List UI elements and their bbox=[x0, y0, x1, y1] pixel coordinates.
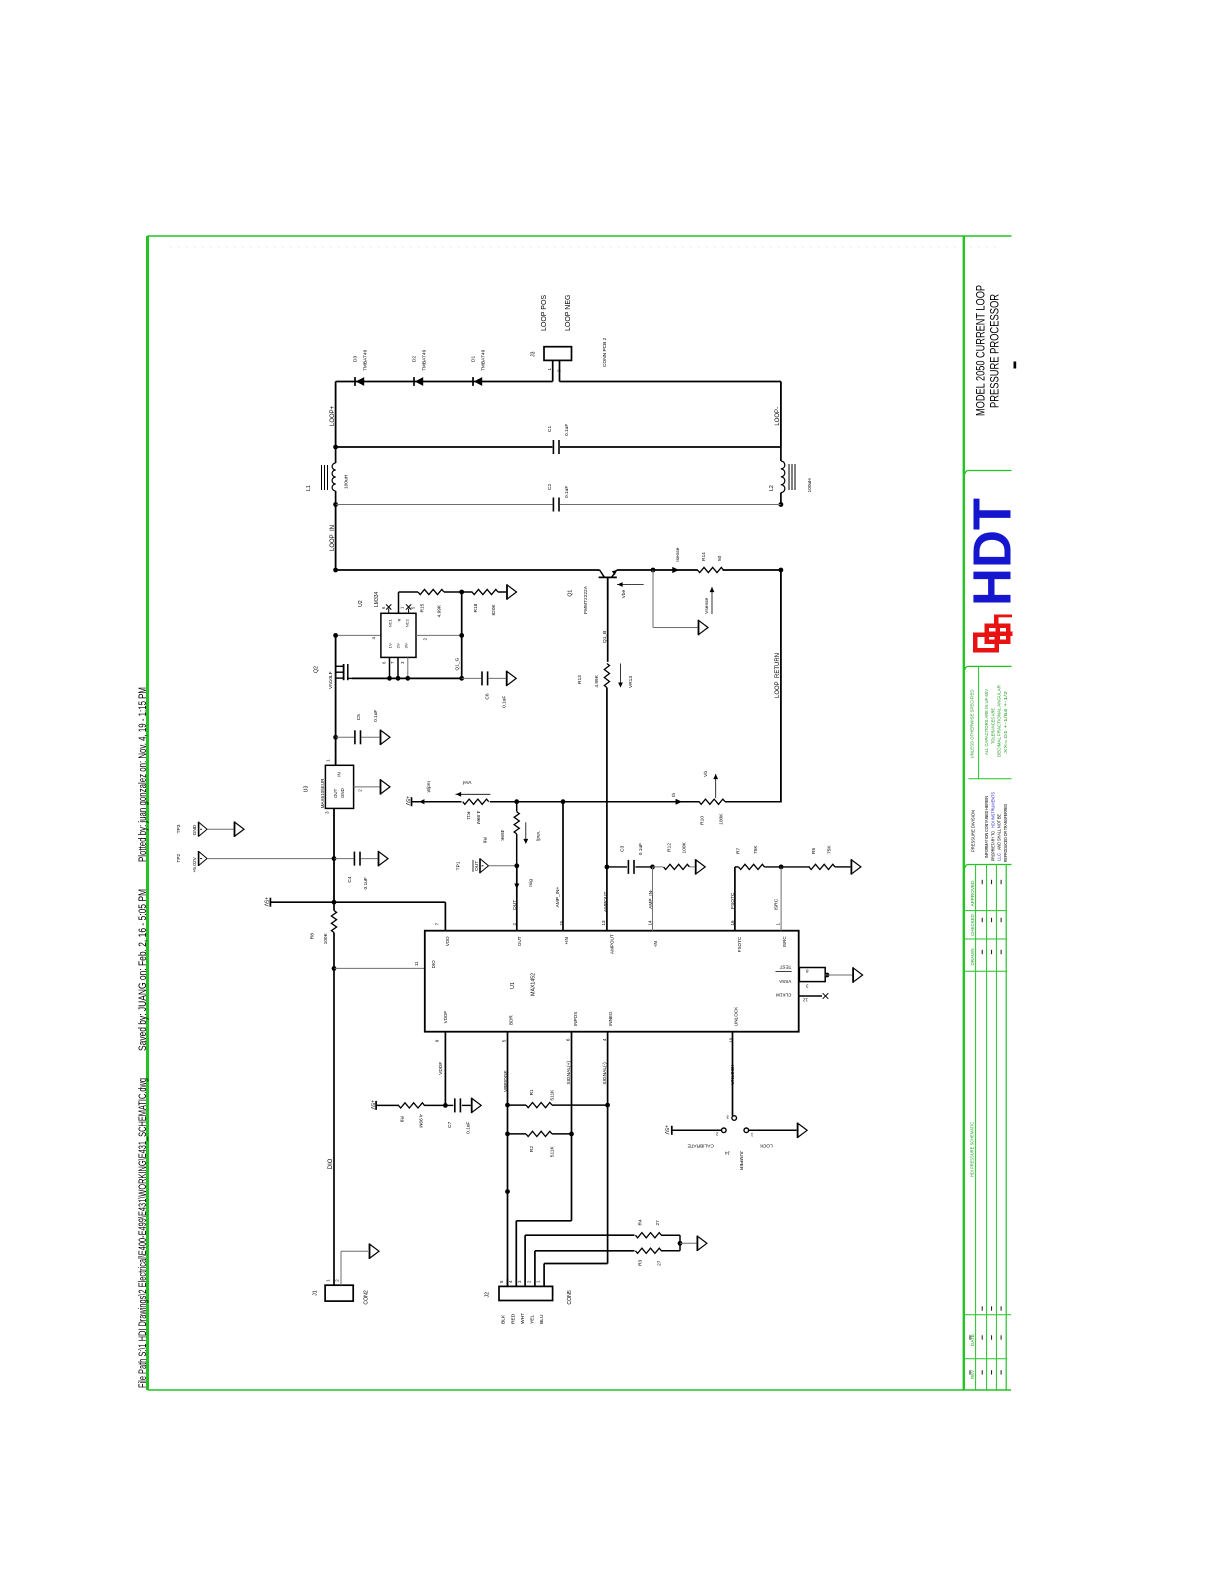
svg-text:MAX1452: MAX1452 bbox=[531, 973, 537, 996]
resistor R14 bbox=[653, 567, 724, 572]
label Q1 bbox=[568, 590, 574, 597]
svg-text:U1: U1 bbox=[510, 982, 516, 989]
pin 6 U1 bbox=[566, 1038, 571, 1041]
label BLU bbox=[539, 1314, 545, 1324]
logo text HDT bbox=[963, 498, 1023, 606]
svg-text:+5V: +5V bbox=[663, 1125, 669, 1135]
wire TP1 to OUT junction bbox=[489, 865, 517, 867]
pin 11 U1 bbox=[414, 961, 419, 966]
svg-text:J1: J1 bbox=[312, 1290, 318, 1296]
svg-text:R11: R11 bbox=[465, 812, 471, 821]
pin 1 J1 bbox=[326, 1278, 335, 1285]
annotation Iadjst bbox=[419, 781, 432, 804]
U1 pin name UNLOCK bbox=[734, 1006, 739, 1026]
wire AMP_IN- stub bbox=[652, 867, 654, 931]
label U2 bbox=[358, 600, 364, 607]
svg-text:AMPOUT: AMPOUT bbox=[610, 934, 615, 954]
svg-text:0.1uF: 0.1uF bbox=[363, 877, 369, 889]
label C2 bbox=[547, 484, 570, 498]
value U2 LM334 bbox=[374, 591, 380, 607]
value U1 MAX1452 bbox=[531, 973, 537, 996]
label U3 bbox=[304, 786, 310, 793]
value L1 100uH bbox=[344, 474, 350, 489]
ground R3 R4 bbox=[697, 1236, 707, 1252]
capacitor C2 bbox=[553, 498, 559, 512]
svg-text:CLK1M: CLK1M bbox=[776, 993, 791, 998]
svg-text:UNLOCK: UNLOCK bbox=[734, 1006, 739, 1026]
wire Q2 gate net vertical bbox=[459, 592, 464, 681]
svg-text:U2: U2 bbox=[358, 600, 364, 607]
net flag +5V j4 bbox=[663, 1125, 672, 1135]
label SIGNAL(-) bbox=[602, 1062, 608, 1085]
label SIGNAL(+) bbox=[566, 1061, 572, 1085]
label LOOP+ bbox=[330, 405, 336, 426]
svg-text:27: 27 bbox=[655, 1220, 661, 1226]
U1 pin name VDD bbox=[445, 936, 450, 946]
svg-text:PRESSURE DIVISION: PRESSURE DIVISION bbox=[971, 810, 976, 852]
U1 pin name AMPOUT bbox=[610, 934, 615, 954]
annotation Vsense bbox=[704, 587, 714, 614]
annotation Isense bbox=[672, 547, 681, 573]
inductor L1 bbox=[322, 447, 336, 505]
svg-text:100K: 100K bbox=[323, 932, 329, 944]
wire R3 R4 common bbox=[678, 1235, 697, 1251]
wire Q1 base down bbox=[607, 600, 609, 662]
node R11 R6 junction bbox=[514, 799, 519, 804]
node VBRIDGE R1 junction bbox=[505, 1103, 510, 1108]
svg-text:CONN PCB 2: CONN PCB 2 bbox=[602, 337, 608, 367]
wire RED signal+ bbox=[516, 1134, 571, 1221]
svg-text:LOOP-: LOOP- bbox=[775, 407, 781, 426]
svg-text:LOOP_RETURN: LOOP_RETURN bbox=[775, 653, 781, 698]
svg-text:75K: 75K bbox=[827, 845, 833, 854]
svg-text:LOOP NEG: LOOP NEG bbox=[565, 295, 572, 331]
label GND bbox=[192, 824, 198, 835]
svg-text:100uH: 100uH bbox=[807, 478, 813, 493]
svg-text:AND SHALL NOT BE: AND SHALL NOT BE bbox=[997, 814, 1002, 850]
svg-text:R15: R15 bbox=[419, 603, 425, 612]
label LOOP NEG bbox=[565, 295, 572, 331]
wire DIO row bbox=[334, 967, 425, 969]
U1 pin name BDR bbox=[508, 1015, 513, 1025]
node R15 R18 junction bbox=[459, 590, 464, 595]
revision table grid bbox=[964, 865, 1011, 1391]
node VBRIDGE lower junction bbox=[505, 1189, 510, 1194]
pin 1 U1 bbox=[775, 923, 780, 926]
svg-text:R8: R8 bbox=[309, 933, 315, 939]
svg-text:100uH: 100uH bbox=[344, 474, 350, 489]
svg-text:JUMPER: JUMPER bbox=[738, 1151, 744, 1171]
svg-text:11: 11 bbox=[414, 961, 419, 966]
standards cell text bbox=[970, 685, 1008, 759]
svg-text:MODEL 2050 CURRENT LOOP: MODEL 2050 CURRENT LOOP bbox=[976, 285, 988, 416]
svg-text:Isense: Isense bbox=[675, 547, 681, 561]
value C6 0.1uF bbox=[502, 696, 508, 708]
resistor R6 bbox=[514, 802, 519, 866]
svg-text:J4: J4 bbox=[725, 1149, 730, 1155]
wire collector row bbox=[336, 569, 600, 571]
svg-text:Q1_G: Q1_G bbox=[455, 657, 461, 670]
value R4 27 bbox=[655, 1220, 661, 1226]
pin 4 J2 bbox=[508, 1221, 516, 1287]
pin 9 U1 bbox=[435, 1039, 440, 1042]
svg-text:D1: D1 bbox=[471, 356, 477, 362]
node AMP_IN- junction bbox=[650, 865, 655, 870]
resistor R2 bbox=[508, 1131, 572, 1136]
value R3 27 bbox=[657, 1260, 663, 1266]
node ISRC junction bbox=[779, 865, 784, 870]
wire R14 to LOOP_RETURN bbox=[723, 568, 784, 573]
node L2 out junction bbox=[779, 502, 784, 507]
svg-text:INPOS: INPOS bbox=[573, 1012, 578, 1026]
svg-text:BLK: BLK bbox=[501, 1314, 507, 1324]
label VBRIDGE net bbox=[503, 1070, 509, 1092]
node DIO junction bbox=[332, 966, 337, 971]
svg-text:DIO: DIO bbox=[328, 1158, 334, 1169]
resistor R1 bbox=[508, 1103, 608, 1108]
svg-text:C3: C3 bbox=[620, 845, 626, 851]
wire Ib row bbox=[517, 799, 700, 804]
svg-text:9: 9 bbox=[435, 1039, 440, 1042]
svg-text:APPROVED: APPROVED bbox=[970, 881, 975, 907]
svg-text:IN: IN bbox=[337, 772, 342, 776]
svg-text:C4: C4 bbox=[347, 876, 353, 882]
resistor R5 bbox=[781, 864, 850, 869]
label R6 bbox=[482, 837, 488, 843]
svg-text:NC2: NC2 bbox=[405, 618, 410, 627]
svg-text:D2: D2 bbox=[412, 356, 418, 362]
file path stamp bbox=[137, 1078, 149, 1388]
wire AMP_IN+ vertical bbox=[562, 802, 564, 931]
ground TP3 bbox=[235, 821, 245, 837]
sheet border frame bbox=[148, 236, 1012, 1390]
svg-text:PROPRIETARY TO: PROPRIETARY TO bbox=[990, 830, 995, 861]
label Q2 bbox=[314, 666, 320, 673]
node L1 out junction bbox=[333, 502, 338, 507]
pin 1 U3 bbox=[326, 759, 331, 762]
svg-text:LM334: LM334 bbox=[374, 591, 380, 607]
svg-text:Vb: Vb bbox=[703, 771, 709, 777]
wire WHT to R4 bbox=[525, 1234, 634, 1236]
label D1 bbox=[471, 349, 487, 371]
svg-text:C6: C6 bbox=[485, 693, 491, 699]
label WHT bbox=[520, 1313, 526, 1324]
svg-text:HDI PRESSURE SCHEMATIC: HDI PRESSURE SCHEMATIC bbox=[970, 1121, 975, 1177]
annotation Vbe bbox=[617, 582, 644, 598]
value Q1 FMMT2222A bbox=[583, 585, 589, 614]
label CONN PCB 2 bbox=[602, 337, 608, 367]
svg-text:-IN: -IN bbox=[653, 941, 658, 947]
U2 internal text bbox=[388, 618, 410, 648]
svg-text:+IN: +IN bbox=[564, 937, 569, 944]
transistor Q2 VN10LF mosfet bbox=[336, 635, 352, 680]
pin 3 U3 out bbox=[325, 808, 335, 858]
svg-text:+5V: +5V bbox=[263, 897, 269, 907]
node LOOP_IN junction bbox=[333, 568, 338, 573]
test point TP3 bbox=[199, 822, 208, 837]
label R9 bbox=[399, 1116, 405, 1122]
U1 pin name DIO bbox=[431, 960, 436, 969]
svg-text:0.1uF: 0.1uF bbox=[465, 1122, 471, 1134]
svg-text:LLC: LLC bbox=[997, 853, 1002, 861]
label C1 bbox=[547, 424, 570, 436]
pin 5 U1 bbox=[501, 1039, 506, 1042]
wire to U3 bbox=[335, 737, 337, 765]
svg-text:VDDF: VDDF bbox=[438, 1062, 444, 1075]
svg-text:C7: C7 bbox=[447, 1121, 453, 1127]
pin 4 U1 bbox=[602, 1038, 607, 1041]
capacitor C3 bbox=[607, 860, 653, 874]
label R4 bbox=[637, 1219, 643, 1225]
capacitor C1 bbox=[553, 440, 559, 454]
value C5 0.1uF bbox=[373, 710, 379, 722]
svg-text:R4: R4 bbox=[637, 1219, 643, 1225]
svg-text:AMPOUT: AMPOUT bbox=[603, 892, 609, 913]
svg-text:14: 14 bbox=[647, 920, 652, 926]
capacitor C6 bbox=[462, 671, 506, 685]
wire LOOP_RETURN vertical bbox=[780, 570, 782, 803]
pin 2 U3 gnd bbox=[354, 787, 380, 792]
wire VDD stub bbox=[444, 902, 446, 931]
label R5 bbox=[811, 848, 817, 854]
svg-text:ISRC: ISRC bbox=[782, 936, 787, 948]
svg-text:R3: R3 bbox=[637, 1259, 643, 1265]
svg-text:VDDF: VDDF bbox=[443, 1011, 448, 1024]
value U3 MAX6105EUR bbox=[320, 778, 325, 809]
ground J1 pin2 bbox=[370, 1243, 380, 1259]
svg-text:Q1_B: Q1_B bbox=[602, 631, 608, 643]
wire BLU signal- bbox=[544, 1263, 608, 1265]
U1 pin name FSOTC bbox=[737, 936, 742, 952]
svg-text:4.99M: 4.99M bbox=[475, 811, 481, 824]
svg-text:5: 5 bbox=[501, 1039, 506, 1042]
label YEL bbox=[529, 1315, 535, 1324]
node C4 junction bbox=[332, 856, 337, 861]
svg-text:15: 15 bbox=[559, 920, 564, 926]
svg-text:PRESSURE PROCESSOR: PRESSURE PROCESSOR bbox=[990, 294, 1002, 408]
svg-text:+5.02V: +5.02V bbox=[192, 856, 198, 872]
label CALIBRATE bbox=[687, 1142, 713, 1148]
node SIGNAL+ junction bbox=[569, 1132, 574, 1137]
label R10 bbox=[700, 816, 706, 825]
svg-text:C2: C2 bbox=[547, 484, 553, 490]
svg-text:OUT: OUT bbox=[333, 788, 338, 798]
wire base net down to AMPOUT bbox=[606, 688, 608, 867]
node OUT junction bbox=[514, 863, 519, 868]
svg-text:6: 6 bbox=[566, 1038, 571, 1041]
svg-text:R1: R1 bbox=[529, 1089, 535, 1095]
label J1 bbox=[312, 1290, 318, 1296]
svg-text:REV: REV bbox=[970, 1370, 975, 1379]
ground R18 bbox=[507, 584, 517, 600]
ground R12 bbox=[696, 859, 706, 875]
label C7 bbox=[447, 1121, 453, 1127]
plot artifact row bbox=[170, 246, 1000, 248]
annotation Vadj bbox=[523, 822, 541, 844]
svg-text:J3: J3 bbox=[531, 351, 537, 357]
svg-text:File Path S:\1 HDI Drawings\2: File Path S:\1 HDI Drawings\2 Electrical… bbox=[137, 1078, 149, 1388]
label LOOP_IN bbox=[330, 525, 336, 551]
label C5 bbox=[356, 714, 362, 720]
wire OUT stub bbox=[516, 866, 518, 931]
svg-text:C1: C1 bbox=[547, 426, 553, 432]
value R12 100K bbox=[682, 841, 688, 853]
wire +5V row bbox=[270, 900, 445, 905]
node SIGNAL- junction bbox=[605, 1103, 610, 1108]
value R18 820K bbox=[491, 603, 497, 615]
svg-text:NC1: NC1 bbox=[388, 618, 393, 627]
pin 6 U2 bottom bbox=[382, 657, 392, 680]
svg-text:FSOTC: FSOTC bbox=[730, 892, 736, 909]
wire LOOP NEG to right rail bbox=[560, 382, 781, 448]
pin 14 U1 bbox=[647, 920, 652, 926]
label UNLOCK net bbox=[730, 1064, 736, 1085]
label OUT tp bbox=[473, 860, 480, 872]
pin 15 U1 bbox=[559, 920, 564, 926]
svg-text:VBRIDGE: VBRIDGE bbox=[503, 1070, 509, 1092]
svg-text:0.1uF: 0.1uF bbox=[373, 710, 379, 722]
value L2 100uH bbox=[807, 478, 813, 493]
svg-text:13: 13 bbox=[601, 920, 606, 926]
svg-text:CHECKED: CHECKED bbox=[970, 914, 975, 936]
svg-text:LOOP POS: LOOP POS bbox=[541, 295, 548, 331]
svg-text:OUT: OUT bbox=[474, 861, 480, 871]
U1 pin name +IN bbox=[564, 937, 569, 944]
label Q1_B bbox=[602, 631, 608, 643]
title cell divider bbox=[965, 471, 1011, 474]
svg-text:Q1: Q1 bbox=[568, 590, 574, 597]
svg-text:R13: R13 bbox=[577, 675, 583, 684]
resistor R15 bbox=[399, 589, 462, 594]
wire U2 pin4 row bbox=[333, 633, 381, 638]
wire TEST to ground bbox=[825, 973, 853, 978]
connector J2 CON5 box bbox=[499, 1286, 553, 1300]
resistor R4 bbox=[635, 1233, 680, 1238]
label R3 bbox=[637, 1259, 643, 1265]
label CON5 bbox=[567, 1290, 573, 1305]
capacitor C4 bbox=[334, 852, 378, 866]
hdt cell divider bbox=[965, 666, 1011, 669]
svg-text:1V-: 1V- bbox=[388, 642, 393, 649]
wire +5V to J4 pin2 bbox=[672, 1129, 722, 1131]
pin 2 J1 bbox=[334, 1251, 368, 1285]
svg-text:TMBAT49: TMBAT49 bbox=[363, 349, 369, 371]
ground C6 bbox=[507, 671, 517, 687]
jumper J4 pin 2 bbox=[715, 1128, 726, 1137]
svg-text:MAX6105EUR: MAX6105EUR bbox=[320, 778, 325, 809]
label OUT net bbox=[512, 900, 518, 910]
value R9 4.99M bbox=[418, 1114, 424, 1127]
svg-text:1: 1 bbox=[547, 368, 552, 371]
label C3 bbox=[620, 845, 626, 851]
label R14 bbox=[701, 552, 707, 561]
svg-text:2: 2 bbox=[557, 369, 562, 372]
ground LOCK bbox=[798, 1123, 808, 1139]
svg-text:CON5: CON5 bbox=[567, 1290, 573, 1305]
svg-text:R7: R7 bbox=[736, 848, 742, 854]
resistor R12 bbox=[653, 864, 695, 869]
wire J4 pin1 to lock gnd bbox=[749, 1129, 797, 1131]
svg-text:2V-: 2V- bbox=[396, 642, 401, 649]
standards cell divider bbox=[969, 666, 1012, 778]
svg-text:C5: C5 bbox=[356, 714, 362, 720]
svg-text:DRAWN: DRAWN bbox=[970, 949, 975, 966]
svg-text:ALL CAPACITORS ARE IN UF-50V: ALL CAPACITORS ARE IN UF-50V bbox=[984, 689, 989, 755]
wire UNLOCK stub bbox=[732, 1032, 734, 1116]
title text MODEL 2050 CURRENT LOOP PRESSURE PROCESSOR bbox=[976, 285, 1017, 416]
value C4 0.1uF bbox=[363, 877, 369, 889]
svg-text:R6: R6 bbox=[482, 837, 488, 843]
svg-text:Q2: Q2 bbox=[314, 666, 320, 673]
svg-text:16: 16 bbox=[730, 920, 735, 926]
svg-text:L1: L1 bbox=[306, 485, 312, 491]
label DIO net bbox=[328, 1158, 334, 1169]
svg-text:TP3: TP3 bbox=[176, 824, 182, 833]
svg-text:Iadjst: Iadjst bbox=[426, 781, 432, 793]
label VDDF net bbox=[438, 1062, 444, 1075]
label +5.02V bbox=[192, 856, 198, 872]
svg-text:R12: R12 bbox=[667, 843, 673, 852]
annotation Vb bbox=[703, 771, 718, 798]
svg-text:.XX=.01 +-1/64 +-1/2: .XX=.01 +-1/64 +-1/2 bbox=[1003, 690, 1008, 755]
svg-text:R18: R18 bbox=[473, 603, 479, 612]
svg-text:OUT: OUT bbox=[517, 936, 522, 946]
regulator U3 MAX6105EUR box bbox=[325, 765, 353, 808]
svg-text:TEST: TEST bbox=[779, 965, 791, 970]
IC U1 MAX1452 box bbox=[425, 931, 799, 1032]
svg-text:Vref: Vref bbox=[462, 779, 471, 785]
U1 pin name -IN bbox=[653, 941, 658, 947]
svg-text:LOCK: LOCK bbox=[759, 1142, 773, 1148]
svg-text:459K: 459K bbox=[499, 830, 505, 842]
label R2 bbox=[529, 1146, 535, 1152]
svg-text:YEL: YEL bbox=[529, 1315, 535, 1324]
svg-text:TMBAT49: TMBAT49 bbox=[481, 349, 487, 371]
label J2 bbox=[484, 1292, 490, 1298]
node AMPOUT junction bbox=[605, 865, 610, 870]
label LOOP- bbox=[775, 407, 781, 426]
label R18 bbox=[473, 603, 479, 612]
svg-text:4.99K: 4.99K bbox=[437, 604, 443, 617]
wire AMPOUT stub bbox=[606, 867, 608, 931]
label C6 bbox=[485, 693, 491, 699]
svg-text:INFORMATION CONTAINED HEREIN: INFORMATION CONTAINED HEREIN bbox=[984, 796, 989, 858]
svg-text:4: 4 bbox=[602, 1038, 607, 1041]
U1 pin name INNEG bbox=[608, 1011, 613, 1026]
pin 3 U2 bottom bbox=[400, 657, 410, 680]
svg-text:R10: R10 bbox=[700, 816, 706, 825]
annotation Vref bbox=[456, 779, 491, 797]
svg-text:Vsense: Vsense bbox=[704, 597, 710, 613]
wire INPOS stub bbox=[571, 1032, 573, 1134]
svg-text:R: R bbox=[397, 619, 402, 622]
svg-text:VDD: VDD bbox=[445, 936, 450, 946]
wire INNEG stub bbox=[607, 1032, 609, 1105]
svg-text:L2: L2 bbox=[769, 485, 775, 491]
wire BDR stub bbox=[507, 1032, 509, 1287]
svg-text:HDT: HDT bbox=[963, 498, 1023, 606]
svg-text:RED: RED bbox=[510, 1313, 516, 1324]
pin 1 J2 bbox=[536, 1264, 545, 1287]
svg-text:R14: R14 bbox=[701, 552, 707, 561]
label D2 bbox=[412, 349, 428, 371]
svg-text:R9: R9 bbox=[399, 1116, 405, 1122]
wire LOOP_IN vertical bbox=[335, 505, 337, 571]
svg-text:3V-: 3V- bbox=[404, 642, 409, 649]
pin 7 U1 bbox=[435, 923, 440, 926]
plotted by stamp bbox=[137, 687, 149, 862]
resistor R13 bbox=[604, 664, 609, 688]
